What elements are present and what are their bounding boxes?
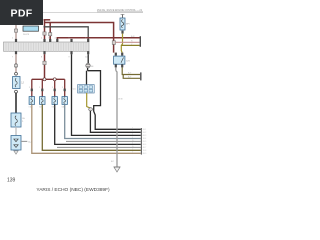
connector on feed <box>43 61 46 64</box>
svg-text:5E 1: 5E 1 <box>143 129 147 131</box>
pins ECM top <box>43 39 89 42</box>
pin ECM top x16 <box>15 39 17 42</box>
svg-text:139: 139 <box>7 178 16 184</box>
fuse F1 terminal bottom <box>15 90 18 93</box>
wire yellow fuse to relay <box>121 34 122 53</box>
stack labels <box>143 129 147 155</box>
injector INJ1 <box>29 97 34 105</box>
igniter U2 <box>11 113 25 127</box>
ground symbol <box>114 167 120 172</box>
wire red B drop to ECM <box>49 23 51 43</box>
wire black connector to stack <box>90 111 140 132</box>
header rule <box>43 12 143 13</box>
wire gray distributor line a <box>21 140 27 142</box>
svg-text:4E 7: 4E 7 <box>143 147 147 149</box>
wire D black ECM to stack <box>72 54 141 135</box>
injector feed wire red <box>44 54 46 79</box>
connector on red vertical <box>112 41 115 45</box>
fuse F1 <box>13 77 25 89</box>
svg-text:EFI: EFI <box>126 24 130 26</box>
wire bluegray inj4 to stack <box>65 104 141 138</box>
svg-text:5E 2: 5E 2 <box>143 132 147 134</box>
junction node J2 <box>53 78 56 81</box>
ground arrow below distributor <box>14 151 18 154</box>
svg-text:3E 6: 3E 6 <box>143 144 147 146</box>
svg-text:EC: EC <box>111 161 114 163</box>
svg-text:6E 3: 6E 3 <box>143 135 147 137</box>
pin ECM bottom x16 <box>15 51 17 54</box>
rail drops <box>32 79 65 96</box>
svg-text:PDF: PDF <box>11 8 33 20</box>
tiny labels injectors <box>29 87 66 109</box>
fuse F1 terminal top <box>15 72 18 75</box>
wire gray distributor line b <box>57 146 141 148</box>
PDF badge <box>0 0 43 25</box>
right connector bar mid <box>140 72 141 80</box>
round connector on E <box>86 63 94 68</box>
svg-text:L: L <box>132 137 133 139</box>
wire red A drop to ECM <box>44 20 46 42</box>
wire W2 taupe ECM to fuse F1 <box>14 54 17 72</box>
connector on wire A <box>43 32 46 35</box>
injector INJ4 <box>62 97 67 105</box>
svg-text:B-R: B-R <box>131 36 135 38</box>
wire olive relay to right connector upper <box>122 67 140 74</box>
fuse F2 EFI <box>120 14 130 30</box>
relay R1 <box>114 56 131 64</box>
injector INJ3 <box>52 97 57 105</box>
svg-text:2NZ-FE, 1NZ-FE ENGINE CONTROL: 2NZ-FE, 1NZ-FE ENGINE CONTROL — 22 <box>97 10 143 12</box>
wire yellow block to connector <box>87 93 91 108</box>
svg-text:IG: IG <box>22 118 25 120</box>
sensor block U4 <box>73 85 94 93</box>
relay pins top <box>115 53 117 56</box>
svg-text:W-B: W-B <box>118 99 123 101</box>
cyan check connector <box>23 26 39 36</box>
svg-text:DLC3: DLC3 <box>23 34 29 36</box>
stack connector bar right <box>141 128 142 155</box>
relay pins bottom <box>115 64 117 67</box>
svg-text:1E 4: 1E 4 <box>143 138 147 140</box>
svg-text:7E 8: 7E 8 <box>143 150 147 152</box>
connector on wire B <box>49 33 52 36</box>
fuse F2 bottom pin <box>121 31 123 34</box>
wire red line3 <box>57 38 140 42</box>
wire E branch to right <box>88 71 141 130</box>
wire pink to right connector <box>116 41 140 43</box>
svg-text:YARIS / ECHO (NBC) (EWD389F): YARIS / ECHO (NBC) (EWD389F) <box>36 187 110 193</box>
wire E black ECM to shield connector <box>87 54 89 63</box>
svg-text:C/O: C/O <box>126 61 130 63</box>
svg-text:2E 5: 2E 5 <box>143 141 147 143</box>
stack wire labels above ends <box>132 128 134 154</box>
tiny pin number texts around ECM <box>12 37 88 58</box>
right connector bar top <box>140 36 141 47</box>
wire olive inj2 to stack <box>42 104 141 150</box>
wire black inj3 to stack <box>55 104 141 144</box>
injector pin connectors <box>31 89 66 92</box>
wire gray ground from relay <box>115 67 117 70</box>
svg-text:8E 9: 8E 9 <box>143 153 147 155</box>
wire tan inj1 to stack <box>32 104 141 153</box>
distributor U3 <box>11 136 21 151</box>
wire gray line C <box>44 27 89 42</box>
wire red line1 <box>44 19 51 21</box>
wire olive lower return <box>123 75 140 79</box>
round connector on yellow <box>89 108 93 111</box>
wire red line2 + B drop <box>45 23 114 53</box>
wire W1 taupe from top to ECM <box>14 25 17 42</box>
injector rail red <box>32 78 65 80</box>
wire yellow branch right <box>121 44 139 46</box>
wire W4 gray igniter to distributor <box>15 127 17 136</box>
pins ECM bottom <box>43 51 89 54</box>
injector INJ2 <box>40 97 45 105</box>
wire W3 black fuse to igniter <box>15 93 17 113</box>
ECM band (hatched connector strip) <box>4 42 90 51</box>
junction node J1 <box>43 78 46 81</box>
wire gray stack line5 <box>66 140 141 142</box>
wire E down to sensor block <box>87 68 89 71</box>
